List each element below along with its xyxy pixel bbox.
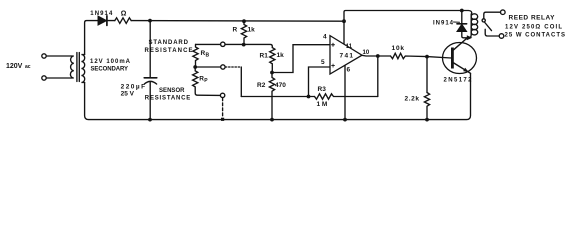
svg-text:R1: R1 xyxy=(260,53,269,60)
svg-text:STANDARD: STANDARD xyxy=(149,40,189,46)
svg-text:SENSOR: SENSOR xyxy=(159,88,185,94)
svg-text:10: 10 xyxy=(363,50,370,56)
wire output xyxy=(362,54,391,57)
svg-text:12V 100mA: 12V 100mA xyxy=(90,59,131,65)
svg-text:2.2k: 2.2k xyxy=(405,96,420,103)
wire pin6 riser xyxy=(344,66,346,120)
node RB bottom xyxy=(193,65,197,69)
svg-text:6: 6 xyxy=(347,67,351,74)
transformer T1 core xyxy=(77,53,79,82)
node terminal sensor lower xyxy=(220,93,224,97)
wire riser to R3 line xyxy=(240,67,242,97)
wire 2.2k riser xyxy=(426,57,428,93)
node R top xyxy=(242,19,246,23)
node ground pin6 xyxy=(343,118,347,122)
svg-text:2N5172: 2N5172 xyxy=(444,78,473,84)
svg-text:ac: ac xyxy=(25,64,31,70)
wire secondary top riser xyxy=(85,21,98,55)
svg-text:470: 470 xyxy=(275,82,286,89)
svg-text:1k: 1k xyxy=(277,52,285,59)
wire pin11 riser xyxy=(343,21,345,44)
wire input lower xyxy=(46,77,71,79)
svg-text:1k: 1k xyxy=(248,27,256,34)
diode D2 1N914 lead top xyxy=(461,11,463,24)
resistor R5 2.2k xyxy=(424,93,429,120)
svg-text:IN914: IN914 xyxy=(433,21,454,27)
capacitor C1 lead top xyxy=(149,21,151,78)
node: 120V input terminal upper xyxy=(42,54,46,58)
svg-text:4: 4 xyxy=(323,33,327,40)
transistor Q1 emitter xyxy=(454,63,471,73)
svg-text:10k: 10k xyxy=(392,45,405,52)
svg-text:Ω: Ω xyxy=(121,11,127,18)
wire base xyxy=(427,57,451,58)
diode D2 cathode bar xyxy=(457,23,467,25)
transistor Q1 emitter arrow xyxy=(463,68,469,73)
resistor R 1k vertical xyxy=(241,21,246,44)
wire input upper xyxy=(46,55,71,57)
node diode coil top xyxy=(460,9,464,13)
svg-text:12V 250Ω COIL: 12V 250Ω COIL xyxy=(505,24,562,30)
diode D1 1N914 left xyxy=(98,16,106,24)
node ground 2.2k xyxy=(425,118,429,122)
svg-text:+: + xyxy=(331,63,335,70)
resistor R3 xyxy=(315,94,378,99)
svg-text:120V: 120V xyxy=(6,63,23,70)
resistor RP xyxy=(193,67,221,95)
node sensor ground square xyxy=(221,118,224,121)
diode D2 triangle xyxy=(457,25,466,32)
svg-text:25 V: 25 V xyxy=(121,91,135,98)
reed switch arm xyxy=(484,22,491,31)
svg-text:RESISTANCE: RESISTANCE xyxy=(145,48,193,54)
node ground R2 xyxy=(270,118,274,122)
node terminal standard upper xyxy=(221,42,225,46)
resistor RB xyxy=(193,44,198,67)
capacitor C1 lead bottom xyxy=(149,82,151,120)
wire RB bottom to middle terminal xyxy=(195,66,220,68)
relay coil K1 xyxy=(462,11,472,15)
transformer T1 secondary xyxy=(81,55,84,83)
node output xyxy=(376,54,380,58)
op-amp U1 741 triangle xyxy=(330,36,362,74)
wire R3 row left xyxy=(241,96,314,98)
svg-text:11: 11 xyxy=(346,44,353,50)
wire emitter to ground rail xyxy=(85,73,471,119)
resistor R2 xyxy=(269,73,274,120)
svg-text:R3: R3 xyxy=(318,86,327,93)
svg-text:SECONDARY: SECONDARY xyxy=(91,67,129,73)
wire pin5 xyxy=(309,67,331,97)
node ground cap xyxy=(148,118,152,122)
wire node to R1 xyxy=(244,44,273,47)
svg-text:R: R xyxy=(233,26,238,33)
transistor Q1 circle xyxy=(443,43,477,74)
reed switch pivot xyxy=(482,19,485,22)
wire node to RB terminal xyxy=(196,43,244,45)
resistor R1 xyxy=(270,48,275,73)
node cap top xyxy=(148,19,152,23)
transformer T1 primary xyxy=(70,56,73,78)
node reed terminal top xyxy=(501,10,506,15)
node V+ rail xyxy=(342,19,346,23)
svg-text:5: 5 xyxy=(321,59,325,66)
svg-text:RESISTANCE: RESISTANCE xyxy=(145,96,191,102)
wire diode to resistor xyxy=(107,20,115,22)
wire top rail left xyxy=(131,20,344,23)
svg-text:R2: R2 xyxy=(257,82,266,89)
node base xyxy=(425,55,429,59)
node reed terminal bottom xyxy=(499,34,504,39)
transistor Q1 base bar xyxy=(451,48,454,69)
capacitor C1 bottom plate xyxy=(144,81,156,84)
svg-text:25 W CONTACTS: 25 W CONTACTS xyxy=(505,32,566,38)
wire dotted terminal to riser xyxy=(225,66,241,68)
svg-text:B: B xyxy=(206,52,210,58)
wire dashed sensor to ground xyxy=(222,98,224,118)
svg-text:741: 741 xyxy=(340,52,354,59)
svg-text:1 M: 1 M xyxy=(317,101,328,108)
svg-text:REED RELAY: REED RELAY xyxy=(509,15,556,22)
resistor R-ohm top xyxy=(115,18,131,24)
node R3 left xyxy=(307,95,311,99)
node terminal sensor middle xyxy=(221,65,225,69)
reed switch top wire xyxy=(484,12,501,19)
op-amp minus sign xyxy=(332,43,335,46)
wire R3 riser to output xyxy=(377,56,379,97)
label 1N914 arrow dash xyxy=(454,21,460,23)
wire V+ riser and upper rail xyxy=(344,11,462,22)
transistor Q1 collector xyxy=(454,38,470,50)
capacitor C1 top plate xyxy=(144,77,157,79)
wire junction to pin4 riser xyxy=(272,45,330,73)
diode D2 lead bottom xyxy=(462,31,467,38)
diode D2 arrow junction xyxy=(467,35,473,40)
node: 120V input terminal lower xyxy=(42,76,46,80)
resistor R4 10k xyxy=(391,53,428,58)
node R1 R2 junction xyxy=(270,71,274,75)
reed switch bottom wire xyxy=(485,29,499,36)
node below R xyxy=(242,43,246,47)
